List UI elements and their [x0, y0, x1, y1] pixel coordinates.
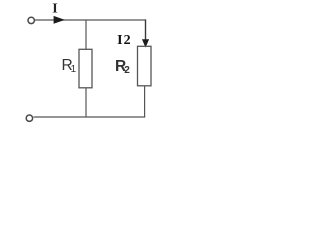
- terminal bottom-left: [26, 115, 32, 121]
- wire R2 branch bottom: [144, 86, 146, 118]
- wire top horizontal: [35, 19, 146, 21]
- resistor R1: [79, 49, 92, 88]
- resistor R2: [138, 46, 152, 86]
- svg-text:R1: R1: [62, 57, 77, 75]
- wire R2 branch top: [145, 19, 147, 41]
- wire R1 branch top: [85, 20, 87, 50]
- wire bottom horizontal: [34, 116, 146, 118]
- svg-text:R2: R2: [115, 58, 130, 76]
- wire R1 branch bottom: [85, 88, 87, 117]
- svg-text:I2: I2: [117, 33, 131, 48]
- svg-text:I: I: [52, 2, 57, 17]
- current arrow I2: [142, 39, 149, 47]
- current arrow I: [54, 16, 65, 24]
- terminal top-left: [28, 17, 34, 23]
